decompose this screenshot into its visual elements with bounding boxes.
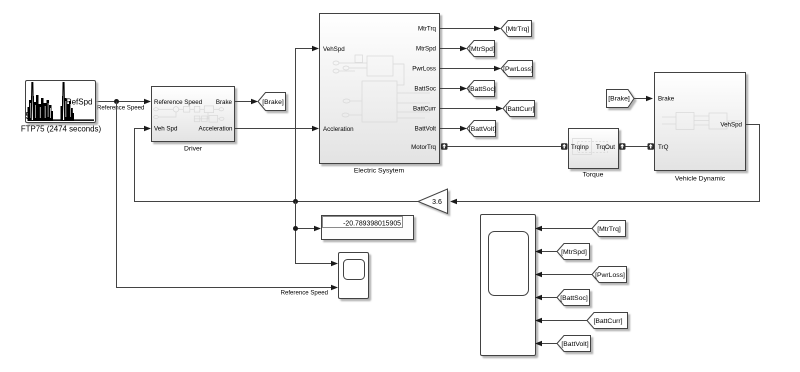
svg-text:[MtrTrq]: [MtrTrq] — [597, 226, 621, 233]
svg-text:[MtrTrq]: [MtrTrq] — [506, 26, 530, 33]
block FTP75 source (signal builder) — [21, 81, 102, 134]
goto tag [MtrTrq] — [501, 21, 532, 37]
svg-text:VehSpd: VehSpd — [323, 46, 345, 53]
svg-text:Vehicle Dynamic: Vehicle Dynamic — [675, 176, 726, 183]
wire: gain output to Driver Veh Spd input — [135, 129, 419, 202]
svg-text:MotorTrq: MotorTrq — [411, 144, 436, 151]
from tag [BattSoc] — [557, 290, 590, 306]
Electric System ghost preview — [333, 55, 430, 122]
wire: MtrSpd to goto tag — [439, 48, 461, 50]
arrowhead into goto [Brake] — [251, 99, 258, 105]
wire: Driver Brake to goto [Brake] — [235, 101, 252, 103]
svg-text:[BattCurr]: [BattCurr] — [593, 318, 622, 325]
svg-text:Driver: Driver — [184, 146, 203, 153]
big scope block — [481, 215, 536, 356]
from tag [BattVolt] — [557, 336, 591, 352]
Vehicle Dynamic ghost preview — [662, 113, 741, 130]
arrowhead into Vehicle Dynamic Brake port — [646, 96, 653, 102]
wire: BattCurr to goto tag — [439, 108, 497, 110]
Driver ghost preview — [154, 106, 224, 122]
arrowhead into Scope port 2 — [331, 285, 338, 291]
arrowhead into Electric System VehSpd port — [312, 46, 319, 52]
arrowhead into Driver Reference Speed port — [144, 99, 151, 105]
svg-text:-20.789398015905: -20.789398015905 — [343, 221, 401, 228]
arrowhead into Display input — [314, 226, 321, 232]
goto tag [BattCurr] — [503, 101, 535, 117]
gain 3.6 triangle — [418, 189, 448, 214]
arrowhead into [BattVolt] goto — [460, 126, 467, 132]
svg-text:TrqOut: TrqOut — [596, 144, 615, 151]
block Torque subsystem — [569, 129, 619, 179]
svg-text:VehSpd: VehSpd — [720, 122, 742, 129]
junction dot display branch — [293, 226, 298, 231]
wire: TrqOut to Vehicle Dynamic TrQ — [620, 146, 651, 148]
wire: vehicle speed branch up to Electric System VehSpd — [296, 49, 314, 202]
svg-text:BattCurr: BattCurr — [413, 106, 436, 113]
svg-text:[PwrLoss]: [PwrLoss] — [503, 66, 533, 73]
block Vehicle Dynamic subsystem — [655, 73, 746, 183]
Torque ghost preview — [573, 139, 608, 155]
svg-text:TrqInp: TrqInp — [571, 144, 589, 151]
arrowhead into Scope port 1 — [331, 261, 338, 267]
wire: BattSoc to goto tag — [439, 88, 461, 90]
from tag [Brake] — [607, 90, 635, 108]
wire: Driver Acceleration to Electric System Accleration — [235, 128, 313, 130]
junction dot on Reference Speed wire — [114, 99, 119, 104]
arrowhead into [BattSoc] goto — [460, 86, 467, 92]
block Electric System subsystem — [320, 14, 440, 175]
svg-text:[PwrLoss]: [PwrLoss] — [595, 272, 625, 279]
svg-text:[BattVolt]: [BattVolt] — [469, 126, 496, 133]
svg-text:[BattVolt]: [BattVolt] — [561, 341, 588, 348]
svg-text:Reference Speed: Reference Speed — [281, 290, 328, 297]
wire: junction down to small Scope port 2 — [117, 102, 333, 288]
arrowhead into big scope port 5 — [535, 318, 542, 324]
wire: branch to Display input — [296, 228, 316, 230]
svg-text:Torque: Torque — [583, 172, 604, 179]
svg-text:3.6: 3.6 — [432, 199, 442, 206]
arrowhead into gain input — [450, 199, 457, 205]
wire: MtrTrq to goto tag — [439, 28, 495, 30]
wire: FTP75 output to Driver Reference Speed input — [96, 101, 145, 103]
arrowhead into [MtrSpd] goto — [460, 46, 467, 52]
from tag [BattCurr] — [587, 313, 628, 329]
svg-text:Brake: Brake — [658, 96, 675, 103]
arrowhead into [PwrLoss] goto — [494, 66, 501, 72]
svg-text:FTP75 (2474 seconds): FTP75 (2474 seconds) — [21, 125, 102, 134]
svg-text:Electric Sysytem: Electric Sysytem — [354, 168, 405, 175]
goto tag [Brake] — [258, 93, 286, 111]
wire: [MtrSpd] from tag to big scope port 2 — [541, 251, 557, 253]
svg-text:TrQ: TrQ — [658, 144, 669, 151]
svg-text:Reference Speed: Reference Speed — [154, 99, 203, 106]
svg-text:Accleration: Accleration — [323, 126, 354, 133]
goto tag [PwrLoss] — [501, 61, 533, 77]
arrowhead into big scope port 2 — [535, 249, 542, 255]
svg-text:Reference Speed: Reference Speed — [97, 105, 144, 112]
goto tag [BattVolt] — [467, 121, 496, 137]
from tag [MtrTrq] — [592, 221, 626, 237]
from tag [MtrSpd] — [557, 244, 590, 260]
svg-text:[MtrSpd]: [MtrSpd] — [561, 249, 587, 256]
wire: PwrLoss to goto tag — [439, 68, 495, 70]
svg-text:Brake: Brake — [216, 99, 233, 106]
wire: BattVolt to goto tag — [439, 128, 461, 130]
wire: [BattVolt] from tag to big scope port 6 — [541, 343, 557, 345]
svg-text:BattSoc: BattSoc — [414, 86, 436, 93]
svg-text:PwrLoss: PwrLoss — [412, 66, 436, 73]
arrowhead into Electric System Accleration port — [312, 126, 319, 132]
wire: Vehicle Dynamic VehSpd loop to gain input — [456, 125, 760, 202]
port badge at TrqOut — [619, 143, 626, 150]
from tag [PwrLoss] — [592, 267, 627, 283]
arrowhead into big scope port 4 — [535, 295, 542, 301]
wire: [BattSoc] from tag to big scope port 4 — [541, 297, 557, 299]
small scope block Reference Speed — [339, 253, 369, 299]
svg-text:[Brake]: [Brake] — [608, 96, 630, 103]
svg-text:[BattSoc]: [BattSoc] — [560, 295, 588, 302]
arrowhead into big scope port 1 — [535, 226, 542, 232]
wire: MotorTrq to Torque TrqInp — [441, 146, 565, 148]
port badge at TrQ — [648, 143, 655, 150]
svg-text:[BattCurr]: [BattCurr] — [505, 106, 534, 113]
block Driver subsystem — [152, 87, 235, 153]
arrowhead into big scope port 3 — [535, 272, 542, 278]
wire: [BattCurr] from tag to big scope port 5 — [541, 320, 587, 322]
wire: [MtrTrq] from tag to big scope port 1 — [541, 228, 592, 230]
FTP75 speed trace plot — [28, 83, 95, 122]
svg-text:BattVolt: BattVolt — [415, 126, 437, 133]
wire: [PwrLoss] from tag to big scope port 3 — [541, 274, 592, 276]
svg-text:Acceleration: Acceleration — [198, 126, 233, 133]
display block — [322, 216, 414, 240]
svg-text:Veh Spd: Veh Spd — [154, 126, 178, 133]
svg-text:MtrSpd: MtrSpd — [416, 46, 437, 53]
arrowhead into Driver Veh Spd port — [144, 126, 151, 132]
arrowhead into big scope port 6 — [535, 341, 542, 347]
svg-text:[BattSoc]: [BattSoc] — [468, 86, 496, 93]
svg-text:MtrTrq: MtrTrq — [418, 26, 437, 33]
arrowhead into [BattCurr] goto — [496, 106, 503, 112]
goto tag [MtrSpd] — [467, 41, 495, 57]
svg-text:[MtrSpd]: [MtrSpd] — [469, 46, 495, 53]
arrowhead into [MtrTrq] goto — [494, 26, 501, 32]
svg-text:[Brake]: [Brake] — [262, 99, 284, 106]
port badge at TrqInp — [561, 143, 568, 150]
port badge at MotorTrq — [441, 143, 448, 150]
junction dot gain line / vertical branch — [293, 199, 298, 204]
wire: from [Brake] to Vehicle Dynamic Brake — [634, 98, 647, 100]
wire: vertical branch down to small Scope port 1 — [296, 202, 333, 264]
goto tag [BattSoc] — [467, 81, 496, 97]
